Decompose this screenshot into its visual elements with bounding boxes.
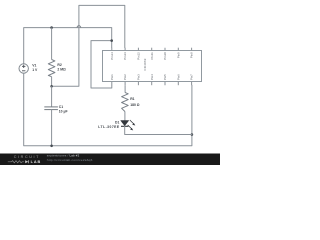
svg-text:http://circuitlab.com/ce2a6q6: http://circuitlab.com/ce2a6q6 (47, 158, 93, 162)
svg-text:Pin10: Pin10 (163, 52, 167, 60)
LED D1 (121, 120, 136, 130)
svg-text:Pin11: Pin11 (150, 52, 154, 60)
node junction at C1 bottom (50, 145, 53, 148)
resistor R2 (48, 28, 55, 87)
wire branch to Pin1 (91, 41, 112, 88)
svg-text:Pin12: Pin12 (137, 52, 141, 60)
svg-text:10 µF: 10 µF (59, 110, 68, 114)
node junction LED return on Pin7 drop (191, 133, 194, 136)
logo diode glyph (25, 160, 28, 163)
node junction at Pin14 drop (110, 39, 113, 42)
capacitor C1 (44, 86, 58, 146)
logo resistor squiggle (8, 161, 24, 163)
svg-text:Pin1: Pin1 (110, 74, 114, 80)
svg-text:CIRCUIT: CIRCUIT (14, 155, 40, 159)
svg-text:R1: R1 (130, 97, 134, 101)
svg-text:Pin14: Pin14 (110, 52, 114, 60)
svg-text:LTL-307EE: LTL-307EE (98, 125, 120, 129)
svg-text:Pin3: Pin3 (137, 74, 141, 80)
svg-text:Pin5: Pin5 (163, 74, 167, 80)
svg-text:Pin9: Pin9 (176, 52, 180, 58)
svg-text:Pin6: Pin6 (176, 74, 180, 80)
IC bottom pin stubs (112, 82, 192, 86)
wire hop over x=78.9 (77, 26, 81, 28)
IC U1 CD4069 box (103, 51, 202, 82)
svg-text:LAB: LAB (31, 160, 42, 164)
emission arrows (130, 120, 134, 124)
wire net1: V1 plus rail to Pin14 (24, 28, 112, 64)
footer bar (0, 154, 220, 166)
svg-text:R2: R2 (57, 63, 61, 67)
resistor R1 (122, 85, 129, 121)
svg-text:Pin8: Pin8 (190, 52, 194, 58)
wire net2: R2 bottom / C1 top up-and-over to Pin13 (52, 5, 125, 86)
IC top pin stubs (112, 48, 192, 51)
svg-text:1 V: 1 V (32, 68, 38, 72)
svg-text:Pin13: Pin13 (123, 52, 127, 60)
svg-text:2 MΩ: 2 MΩ (57, 68, 66, 72)
wire V1 bottom to ground rail (24, 73, 192, 146)
svg-text:V1: V1 (32, 63, 36, 67)
svg-text:Pin4: Pin4 (150, 74, 154, 80)
svg-text:Pin2: Pin2 (123, 74, 127, 80)
wire LED cathode to return (125, 126, 192, 134)
node junction at R2 bottom / C1 top (50, 85, 53, 88)
voltage source V1 (19, 64, 28, 73)
svg-text:CD4069: CD4069 (143, 58, 147, 70)
node junction at R2 top (50, 26, 53, 29)
svg-text:C1: C1 (59, 105, 63, 109)
svg-text:180 Ω: 180 Ω (130, 103, 140, 107)
svg-text:D1: D1 (115, 120, 119, 124)
svg-text:Pin7: Pin7 (190, 74, 194, 80)
